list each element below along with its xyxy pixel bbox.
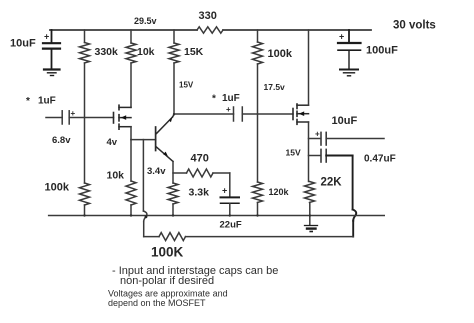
resistor 330k [80, 30, 119, 63]
svg-text:22K: 22K [321, 177, 343, 189]
wire Q3 source to 0.47uF [309, 155, 321, 157]
capacitor 0.47uF [321, 149, 396, 164]
wire 3.3k to rail [172, 204, 174, 216]
ground under 100uF [340, 70, 358, 76]
svg-text:330k: 330k [95, 46, 119, 58]
svg-text:100uF: 100uF [366, 45, 398, 57]
wire 100k to ground rail [84, 205, 86, 216]
resistor 470 [187, 153, 214, 178]
resistor 330 [197, 10, 223, 33]
transistor Q1 MOSFET [107, 105, 132, 148]
wire 15K to collector node [173, 63, 175, 114]
capacitor 100uF supply [338, 30, 398, 69]
resistor 120k [253, 182, 290, 203]
svg-text:3.3k: 3.3k [189, 187, 210, 199]
svg-text:*: * [26, 96, 30, 107]
wire emitter down [172, 162, 174, 184]
wire 10k lower to rail [130, 205, 132, 216]
svg-text:+: + [226, 105, 231, 114]
wire source node to 10k lower [130, 140, 132, 181]
wire feedback tap down with hop over rail [143, 140, 147, 237]
svg-text:+: + [44, 32, 49, 42]
svg-text:17.5v: 17.5v [264, 82, 286, 92]
svg-text:10k: 10k [107, 170, 125, 182]
svg-text:Voltages are approximate and: Voltages are approximate and [108, 289, 228, 299]
node feedback hop blob [145, 215, 148, 218]
svg-text:10k: 10k [137, 46, 155, 58]
wire collector node to interstage cap [174, 113, 234, 115]
ground under 10uF [44, 70, 60, 76]
resistor 10k upper [126, 30, 155, 63]
svg-text:330: 330 [199, 10, 217, 22]
svg-text:470: 470 [191, 153, 209, 165]
svg-text:100K: 100K [151, 245, 184, 260]
wire gate node to 120k [257, 114, 259, 182]
wire bottom ground rail [49, 215, 385, 217]
svg-text:*: * [212, 94, 216, 105]
wire top supply rail [50, 29, 371, 31]
svg-text:+: + [222, 186, 227, 196]
wire 120k to rail [257, 203, 259, 216]
wire 22K through rail to ground [309, 203, 311, 226]
svg-text:non-polar if desired: non-polar if desired [120, 275, 214, 287]
resistor 10k lower [107, 170, 137, 206]
capacitor interstage 1uF [212, 93, 242, 121]
wire interstage cap to Q3 gate [242, 113, 293, 115]
wire Q3 drain to rail [308, 30, 310, 105]
svg-text:4v: 4v [107, 137, 118, 148]
resistor 100k lower-left [45, 182, 90, 206]
wire 0.47uF to feedback drop with hop over rail [326, 156, 356, 237]
wire input cap to gate [69, 117, 113, 119]
wire Q3 source to 10uF out cap [309, 138, 321, 140]
svg-text:15V: 15V [179, 81, 194, 90]
wire feedback row [144, 236, 159, 238]
svg-text:10uF: 10uF [10, 38, 36, 50]
svg-text:29.5v: 29.5v [134, 16, 157, 26]
svg-text:+: + [315, 130, 320, 139]
svg-text:10uF: 10uF [332, 115, 358, 127]
wire emitter to 470 [173, 172, 187, 174]
svg-text:+: + [71, 109, 76, 118]
svg-text:22uF: 22uF [220, 220, 242, 231]
wire Q1 source down [130, 127, 132, 140]
resistor 100k upper right [253, 30, 293, 64]
node collector junction dot [173, 113, 175, 115]
svg-text:120k: 120k [269, 187, 290, 197]
junction dots on ground rail [83, 214, 311, 216]
svg-text:0.47uF: 0.47uF [364, 154, 396, 165]
wire 22uF to rail [229, 203, 231, 215]
wire feedback row right [186, 236, 354, 238]
ground under 22K [305, 226, 318, 232]
capacitor 22uF [220, 186, 242, 231]
svg-text:100k: 100k [268, 48, 293, 60]
svg-text:3.4v: 3.4v [147, 166, 166, 177]
resistor 22K [305, 177, 343, 203]
wire 330k to input node [84, 63, 86, 183]
svg-text:1uF: 1uF [38, 96, 56, 107]
svg-text:depend on the MOSFET: depend on the MOSFET [108, 298, 206, 308]
wire 470 to 22uF [213, 173, 230, 197]
resistor 100K feedback [151, 233, 186, 260]
svg-text:15K: 15K [184, 46, 204, 58]
svg-text:30 volts: 30 volts [393, 20, 436, 32]
transistor Q3 MOSFET output [286, 104, 309, 158]
svg-text:15V: 15V [286, 148, 301, 158]
wire 100k to gate node [257, 64, 259, 114]
wire output lead [326, 138, 384, 140]
svg-text:1uF: 1uF [222, 93, 240, 104]
capacitor 10uF output [315, 115, 357, 145]
svg-text:100k: 100k [45, 182, 70, 194]
svg-text:+: + [339, 32, 344, 42]
wire input lead [46, 117, 62, 119]
wire 10k to Q1 drain [130, 63, 132, 107]
capacitor input 1uF [26, 96, 76, 125]
resistor 15K [169, 30, 204, 63]
wire Q3 source down [308, 122, 310, 182]
note text [108, 265, 278, 308]
svg-text:6.8v: 6.8v [52, 135, 71, 146]
capacitor C 10uF supply left [10, 30, 60, 69]
resistor 3.3k emitter [168, 183, 209, 204]
wire source node row [131, 139, 156, 141]
transistor Q2 BJT [147, 115, 174, 177]
